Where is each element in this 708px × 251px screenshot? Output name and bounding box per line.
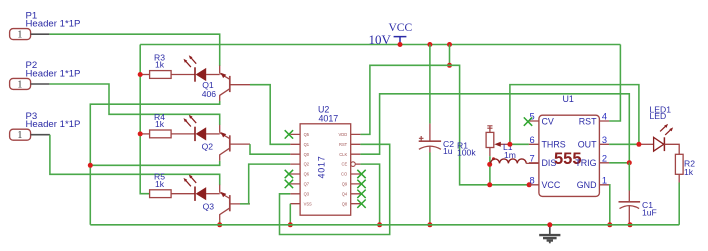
- svg-text:LED: LED: [650, 111, 667, 121]
- no-connect X U2 pin CO: [357, 170, 365, 178]
- no-connect X U2 pin Q9: [357, 180, 365, 188]
- svg-text:CE: CE: [342, 162, 348, 167]
- svg-text:4017: 4017: [317, 156, 327, 179]
- capacitor C2: [419, 45, 455, 225]
- svg-text:CLK: CLK: [339, 152, 347, 157]
- svg-text:VSS: VSS: [304, 201, 312, 206]
- junction VCC flag: [398, 42, 403, 47]
- wire LED1 to R2: [664, 144, 679, 154]
- right pin stubs 4,3,2,1: [599, 121, 609, 185]
- wire R2 to ground bus: [678, 183, 680, 225]
- header P3: [10, 111, 81, 141]
- wire Q3 emitter to ground bus: [219, 221, 221, 225]
- svg-text:1k: 1k: [155, 179, 165, 189]
- potentiometer R1 100k: [457, 126, 510, 160]
- svg-text:1uF: 1uF: [642, 208, 657, 218]
- junction at VDD branch: [447, 63, 452, 68]
- transistor Q3: [203, 185, 250, 221]
- svg-text:4: 4: [602, 112, 607, 122]
- svg-text:6: 6: [530, 135, 535, 145]
- transistor Q2: [202, 125, 250, 161]
- capacitor C1: [619, 163, 657, 225]
- wire LED to Q3: [206, 193, 220, 195]
- wire U2 Q3 output loop to RST: [280, 144, 390, 234]
- svg-text:Q3: Q3: [304, 191, 310, 196]
- svg-text:GND: GND: [577, 180, 597, 190]
- wire P2 to Q2 collector: [49, 84, 219, 125]
- header P2: [10, 60, 81, 90]
- junction VSS on ground bus: [288, 222, 293, 227]
- junction VCC riser: [447, 42, 452, 47]
- no-connect X U2 pin Q5: [285, 130, 293, 138]
- svg-text:Q0: Q0: [304, 152, 310, 157]
- junction 555 GND on bus: [607, 222, 612, 227]
- LED1: [650, 104, 674, 151]
- wire to 555 VCC pin 8: [450, 65, 530, 185]
- svg-text:Q2: Q2: [202, 141, 214, 151]
- svg-text:VDD: VDD: [339, 132, 348, 137]
- transistor Q1: [202, 66, 250, 102]
- svg-text:1k: 1k: [684, 167, 694, 177]
- wire Q1 base to 4017 Q1 pin: [250, 85, 290, 145]
- resistor R2: [675, 154, 695, 182]
- svg-text:406: 406: [202, 89, 217, 99]
- wire LED to Q2: [206, 133, 220, 135]
- junction TRIG / C1 column: [627, 160, 632, 165]
- svg-text:OUT: OUT: [578, 140, 597, 150]
- no-connect X U2 pin Q8: [357, 200, 365, 208]
- svg-text:Q9: Q9: [342, 182, 348, 187]
- wire VCC rail down to resistors R3 R4 R5: [140, 45, 149, 194]
- svg-text:CO: CO: [341, 172, 347, 177]
- wire U2 VSS to ground bus: [289, 204, 291, 225]
- svg-text:1u: 1u: [443, 146, 453, 156]
- wire R1 bottom to VCC line: [489, 156, 491, 185]
- svg-text:Header 1*1P: Header 1*1P: [26, 119, 81, 130]
- svg-text:DIS: DIS: [542, 158, 557, 168]
- resistor R4: [140, 112, 195, 138]
- resistor R5: [150, 172, 195, 198]
- no-connect X 555 CV pin: [524, 117, 532, 125]
- right pin stubs: [351, 134, 361, 203]
- svg-text:2: 2: [602, 153, 607, 163]
- svg-text:Q7: Q7: [304, 182, 310, 187]
- svg-text:Q6: Q6: [304, 172, 310, 177]
- inductor L1 1m: [491, 142, 539, 164]
- VCC net flag symbol: [369, 22, 413, 47]
- svg-text:1: 1: [17, 30, 22, 41]
- wire VCC to 4017 VDD and 555 VCC: [449, 45, 451, 66]
- junction THRS / R1 wiper: [507, 142, 512, 147]
- wire THRS pin to junction: [510, 143, 529, 145]
- junction Q3 emitter on ground bus: [217, 222, 222, 227]
- svg-text:4017: 4017: [319, 113, 339, 123]
- wire Q3 base to 4017 Q2 pin: [240, 164, 290, 204]
- wire U2 CLK up and over to 555 TRIG/C1: [360, 94, 629, 163]
- no-connect X U2 pin Q7: [285, 180, 293, 188]
- svg-text:THRS: THRS: [542, 140, 566, 150]
- svg-text:Header 1*1P: Header 1*1P: [26, 19, 81, 30]
- svg-text:VCC: VCC: [542, 180, 561, 190]
- junction R3/VCC column: [138, 72, 143, 77]
- LED D1: [184, 55, 207, 81]
- junction ground symbol on bus: [547, 222, 552, 227]
- ground symbol: [539, 225, 560, 243]
- LED D3: [184, 175, 207, 201]
- wire Q1 emitter to ground bus: [90, 101, 219, 225]
- wire VCC rail to 555 RST pin 4: [609, 45, 620, 122]
- wire Q2 base to 4017 Q0 pin: [250, 144, 290, 154]
- svg-text:1k: 1k: [155, 60, 165, 70]
- left pin stubs rows 1-8: [290, 134, 300, 203]
- wire P1 to Q1 collector: [49, 34, 219, 66]
- pin 13 bubble: [351, 162, 356, 167]
- no-connect X U2 pin Q6: [285, 170, 293, 178]
- wire THRS riser to OUT: [510, 85, 639, 145]
- svg-text:1m: 1m: [504, 150, 516, 160]
- wire 555 TRIG to C1 column: [609, 162, 629, 164]
- junction 555 VCC pin 8: [527, 182, 532, 187]
- junction R1 bottom / L1: [487, 162, 492, 167]
- junction emitter bus: [88, 163, 93, 168]
- svg-text:1: 1: [17, 130, 22, 141]
- svg-text:1k: 1k: [155, 119, 165, 129]
- LED D2: [184, 115, 207, 141]
- left pin stubs 5,6,7,8: [529, 121, 539, 185]
- svg-text:1: 1: [602, 175, 607, 185]
- svg-text:7: 7: [530, 153, 535, 163]
- resistor R3: [140, 52, 195, 78]
- junction C2 on ground bus: [427, 222, 432, 227]
- svg-text:Q2: Q2: [304, 162, 310, 167]
- IC U2 4017: [290, 104, 360, 215]
- svg-text:RST: RST: [339, 142, 348, 147]
- svg-text:TRIG: TRIG: [575, 158, 596, 168]
- svg-text:Q1: Q1: [304, 142, 310, 147]
- svg-text:Header 1*1P: Header 1*1P: [26, 68, 81, 79]
- svg-text:1: 1: [17, 79, 22, 90]
- svg-text:Q5: Q5: [304, 132, 310, 137]
- junction OUT / feedback riser: [636, 142, 641, 147]
- VCC power rail wire: [140, 44, 620, 46]
- wire Q2 emitter to ground bus: [90, 161, 219, 165]
- junction C1 on ground bus: [628, 222, 633, 227]
- IC U1 555: [529, 94, 609, 196]
- junction on VCC line below R1: [487, 182, 492, 187]
- svg-text:VCC: VCC: [389, 22, 413, 34]
- svg-text:3: 3: [602, 135, 607, 145]
- ground bus wire: [90, 224, 679, 226]
- junction R4/VCC column: [138, 131, 143, 136]
- wire U2 CE to ground bus: [360, 164, 379, 225]
- svg-text:U1: U1: [563, 94, 574, 104]
- svg-text:10V: 10V: [369, 32, 392, 47]
- svg-text:8: 8: [530, 175, 535, 185]
- wire LED to Q1: [206, 74, 220, 76]
- wire to 4017 VDD pin: [360, 65, 449, 134]
- svg-text:100k: 100k: [457, 148, 476, 158]
- svg-text:CV: CV: [542, 116, 554, 126]
- junction CE on ground bus: [377, 222, 382, 227]
- svg-text:RST: RST: [579, 116, 597, 126]
- wire 555 OUT to LED1: [609, 143, 639, 145]
- header P1: [10, 10, 81, 40]
- svg-text:Q8: Q8: [342, 201, 348, 206]
- junction VCC/C2: [427, 42, 432, 47]
- wire 555 GND to ground bus: [608, 185, 611, 225]
- svg-text:Q3: Q3: [203, 202, 215, 212]
- svg-text:Q4: Q4: [342, 191, 348, 196]
- no-connect X U2 pin Q4: [357, 190, 365, 198]
- wire P3 to Q3 collector: [50, 135, 220, 186]
